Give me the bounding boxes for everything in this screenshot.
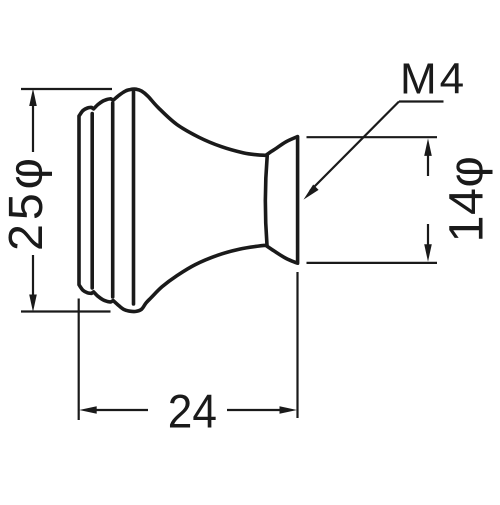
25dia dimension line upper segment bbox=[32, 104, 34, 152]
24 dimension line left segment bbox=[95, 409, 148, 411]
25dia top extension line bbox=[21, 88, 112, 90]
M4 leader underline bbox=[399, 100, 444, 102]
14dia bottom extension line bbox=[307, 262, 438, 264]
14dia arrow up bbox=[424, 138, 432, 156]
25dia bottom extension line bbox=[21, 310, 111, 312]
ring line 2 bbox=[111, 103, 115, 297]
24 dimension line right segment bbox=[227, 409, 282, 411]
25dia arrow up bbox=[29, 89, 37, 107]
24 arrow right bbox=[280, 406, 298, 414]
25dia dimension line lower segment bbox=[32, 255, 34, 296]
knob outline bbox=[79, 89, 298, 311]
14dia arrow down bbox=[424, 244, 432, 262]
M4 leader diagonal bbox=[310, 102, 399, 192]
neck junction arc bbox=[265, 156, 267, 245]
ring line 1 bbox=[90, 114, 94, 289]
svg-text:25φ: 25φ bbox=[0, 154, 53, 251]
25dia arrow down bbox=[29, 295, 37, 313]
14dia dimension lower stub bbox=[427, 224, 429, 245]
svg-text:14φ: 14φ bbox=[440, 155, 494, 242]
24 right extension line bbox=[296, 272, 298, 418]
14dia dimension upper stub bbox=[427, 155, 429, 176]
svg-text:24: 24 bbox=[168, 384, 217, 438]
ring line 3 bbox=[132, 92, 136, 305]
svg-text:M4: M4 bbox=[400, 55, 467, 104]
14dia top extension line bbox=[307, 136, 438, 138]
24 arrow left bbox=[79, 406, 97, 414]
M4 leader arrowhead bbox=[304, 185, 319, 200]
24 left extension line bbox=[78, 299, 80, 421]
